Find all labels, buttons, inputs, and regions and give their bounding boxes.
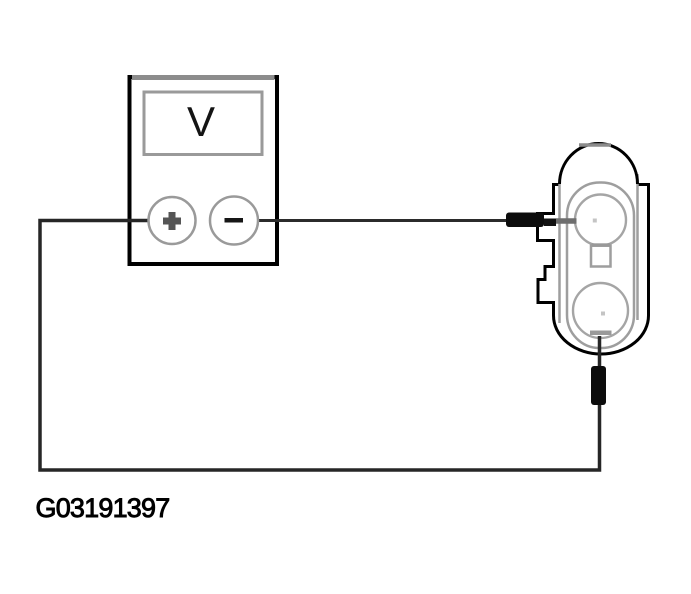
terminal cavity 2 (bottom circle) <box>573 283 628 338</box>
wire: negative meter lead to connector <box>258 219 506 222</box>
notch at bottom of terminal cavity 2 <box>590 331 612 336</box>
connector C1 body (dome and straight sides) <box>560 144 638 336</box>
meter terminal - <box>210 197 258 245</box>
voltmeter M1 body <box>130 77 278 264</box>
terminal cavity 1 (top circle) <box>575 195 626 246</box>
wire: positive meter lead loop (left, bottom, up to connector terminal 2) <box>40 221 600 471</box>
probe P1 tip lead into terminal cavity 1 <box>556 218 577 224</box>
terminal 2 pin dot <box>601 312 605 316</box>
voltmeter display window <box>144 92 262 155</box>
terminal 1 pin dot <box>593 219 597 223</box>
svg-text:V: V <box>187 98 215 145</box>
test probe P2 (into terminal 2, from below) <box>591 366 606 405</box>
keyway below terminal cavity 1 <box>591 243 611 266</box>
connector C1 mounting flange with stepped left profile and bottom cap <box>538 185 649 355</box>
test probe P1 (into terminal 1, from left) <box>506 213 556 228</box>
connector C1 inner seal outline <box>567 183 634 349</box>
meter terminal + <box>149 197 196 244</box>
svg-text:G03191397: G03191397 <box>36 493 170 523</box>
